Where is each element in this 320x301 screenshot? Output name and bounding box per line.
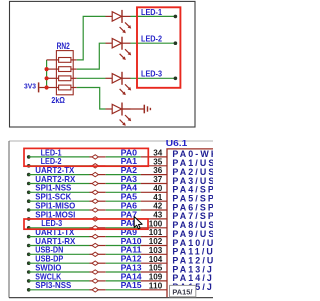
svg-text:LED-3: LED-3 (141, 69, 162, 79)
highlight box LED-1/LED-2 rows (24, 148, 148, 166)
ground (144, 105, 150, 114)
wire R4 to LED4 (77, 88, 106, 110)
wire R3 to LED3 (77, 77, 106, 79)
resistor element 1 (59, 58, 71, 63)
pin row PA2 / UART2-TX (27, 165, 225, 177)
RN2 pin stubs row 3 (47, 77, 59, 79)
wire R2 to LED2 (77, 43, 106, 69)
svg-text:LED-2: LED-2 (141, 34, 162, 44)
pin row PA8 / LED-3 (27, 218, 225, 230)
top panel border (10, 1, 196, 127)
wire LED4 cathode to ground (122, 108, 144, 110)
svg-text:U6.1: U6.1 (166, 138, 188, 148)
wire LED2 cathode to net label (131, 42, 176, 44)
svg-text:110: 110 (149, 280, 163, 290)
svg-text:SPI3-NSS: SPI3-NSS (35, 280, 71, 290)
pin row PA1 / LED-2 (27, 156, 225, 168)
RN2 pin stubs row 2 (47, 68, 59, 70)
svg-text:RN2: RN2 (57, 41, 70, 51)
mouse cursor (134, 217, 142, 229)
pin row PA7 / SPI1-MOSI (27, 209, 221, 221)
LED LED2 (106, 37, 132, 60)
wire LED1 cathode to net label (131, 15, 176, 17)
pin row PA0 / LED-1 (27, 147, 228, 159)
resistor network RN2 (56, 51, 73, 95)
LED LED3 (106, 72, 132, 95)
pin row PA3 / UART2-RX (27, 174, 225, 186)
pin row PA10 / UART1-RX (27, 236, 224, 248)
IC U6.1 body outline (167, 149, 213, 297)
svg-text:PA15/: PA15/ (172, 288, 193, 297)
highlight box LED-3 row (24, 219, 148, 229)
resistor element 3 (59, 76, 71, 81)
tooltip PA15 (170, 285, 196, 296)
svg-text:LED-1: LED-1 (141, 7, 162, 17)
RN2 pin stubs row 1 (47, 59, 59, 61)
pin row PA13 / SWDIO (27, 262, 222, 274)
RN2 pin stubs row 4 (47, 87, 59, 89)
wire R1 to LED1 (77, 16, 106, 60)
svg-text:3V3: 3V3 (24, 82, 36, 91)
highlight box top (LED nets) (137, 7, 180, 88)
pin row PA11 / USB-DN (27, 245, 223, 257)
pin row PA15 / SPI3-NSS (27, 280, 235, 292)
pin row PA4 / SPI1-NSS (27, 183, 221, 195)
LED LED4 (106, 103, 132, 126)
resistor element 4 (59, 85, 71, 90)
wire 3V3 to rail (39, 87, 46, 89)
junction dots on rail (45, 67, 49, 71)
pin row PA12 / USB-DP (27, 254, 224, 266)
resistor element 2 (59, 67, 71, 72)
svg-text:PA15: PA15 (121, 280, 142, 290)
LED LED1 (106, 10, 132, 33)
wire LED3 cathode to net label (131, 77, 176, 79)
svg-text:2kΩ: 2kΩ (51, 95, 65, 105)
wire vertical rail (46, 60, 48, 88)
pin row PA14 / SWCLK (27, 271, 222, 283)
pin row PA5 / SPI1-SCK (27, 192, 221, 204)
pin row PA6 / SPI1-MISO (27, 200, 221, 212)
pin row PA9 / UART1-TX (27, 227, 225, 239)
bottom panel borders (9, 140, 213, 142)
